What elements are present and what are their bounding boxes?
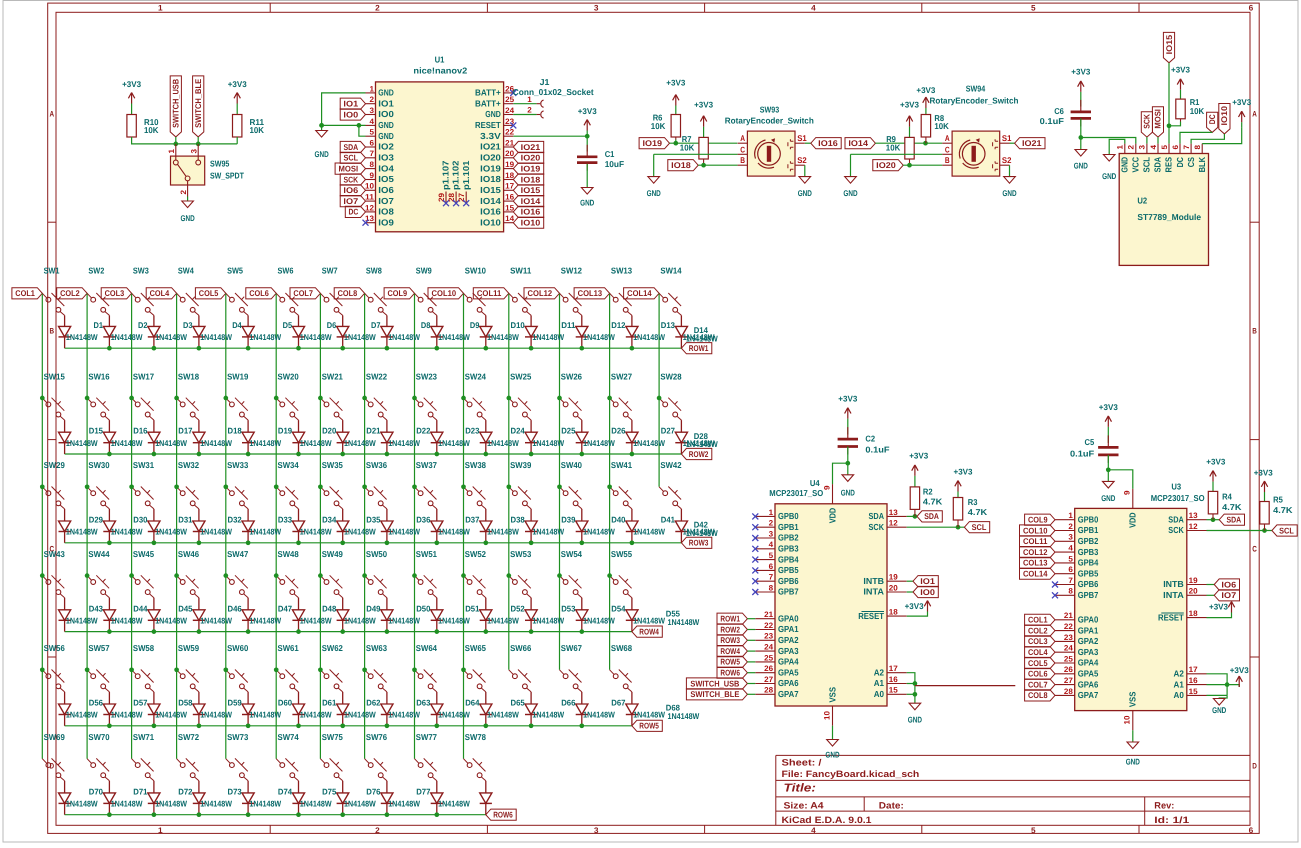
svg-text:5: 5 [1068, 554, 1073, 563]
svg-text:1N4148W: 1N4148W [532, 332, 564, 342]
diode D20 [292, 432, 304, 443]
svg-text:9: 9 [822, 485, 831, 490]
svg-text:D11: D11 [561, 320, 576, 330]
net label COL13 (U3) [1020, 557, 1056, 568]
svg-text:RESET: RESET [858, 611, 884, 621]
junction [385, 346, 390, 351]
wire COL7 vertical [319, 293, 321, 758]
U4 VDD pin 9 [832, 484, 834, 504]
ground GND (U2 pin1) [1103, 155, 1115, 162]
svg-text:28: 28 [1064, 687, 1074, 696]
diode D65 [480, 704, 492, 715]
svg-text:SW10: SW10 [465, 266, 486, 276]
svg-text:1N4148W: 1N4148W [155, 799, 187, 809]
no-connect [752, 546, 758, 552]
wire U3 SCK to SCL [1207, 530, 1272, 532]
U3 pin 2 GPB1 [1055, 530, 1075, 532]
svg-text:SW31: SW31 [133, 460, 154, 470]
svg-text:15: 15 [505, 203, 515, 212]
svg-text:+3V3: +3V3 [900, 100, 919, 110]
graphic line A1 tie to COL7 label [915, 685, 1015, 687]
svg-text:GPB7: GPB7 [1078, 590, 1099, 600]
svg-text:D50: D50 [416, 603, 431, 613]
svg-text:SW4: SW4 [178, 266, 194, 276]
diode D41 [626, 521, 638, 532]
svg-text:D10: D10 [511, 320, 526, 330]
svg-text:IO20: IO20 [876, 160, 896, 170]
svg-text:3: 3 [1068, 533, 1073, 542]
net label COL3 [101, 288, 131, 299]
junction [434, 629, 439, 634]
svg-text:GPB2: GPB2 [778, 533, 799, 543]
svg-text:D35: D35 [366, 515, 381, 525]
svg-text:10K: 10K [934, 121, 949, 131]
svg-text:15: 15 [889, 686, 899, 695]
svg-text:D36: D36 [416, 515, 431, 525]
U1 pin 23 RESET [504, 124, 514, 126]
svg-text:COL9: COL9 [388, 288, 408, 298]
svg-text:IO15: IO15 [1164, 34, 1174, 54]
diode D19 [242, 432, 254, 443]
svg-text:COL12: COL12 [528, 288, 553, 298]
capacitor C5 0.1uF [1107, 435, 1109, 447]
wire A1 to +3V3 (U3) [1227, 685, 1239, 687]
diode D33 [242, 521, 254, 532]
junction [40, 667, 45, 672]
svg-text:1N4148W: 1N4148W [249, 438, 281, 448]
diode D68 [626, 704, 638, 715]
junction [196, 142, 201, 147]
svg-text:Conn_01x02_Socket: Conn_01x02_Socket [513, 87, 594, 97]
wire COL10 vertical [463, 293, 465, 758]
junction [152, 812, 157, 817]
svg-text:D20: D20 [322, 426, 337, 436]
svg-text:D76: D76 [366, 786, 381, 796]
junction [506, 396, 511, 401]
junction [385, 452, 390, 457]
svg-text:SWITCH_USB: SWITCH_USB [690, 678, 739, 688]
wire ROW4 horizontal [65, 631, 632, 633]
junction [529, 346, 534, 351]
svg-text:R2: R2 [923, 487, 933, 497]
svg-text:INTA: INTA [863, 587, 884, 597]
net label IO18 [668, 160, 698, 171]
svg-text:VSS: VSS [827, 687, 837, 703]
svg-text:Id: 1/1: Id: 1/1 [1154, 815, 1189, 825]
junction [129, 484, 134, 489]
diode D71 [148, 793, 160, 804]
net label MOSI (U1) [335, 163, 365, 174]
svg-text:COL12: COL12 [1023, 547, 1048, 557]
diode D1 [59, 326, 71, 337]
ground GND (U3 address) [1213, 699, 1225, 706]
svg-text:GPB5: GPB5 [778, 565, 799, 575]
svg-text:D6: D6 [327, 320, 337, 330]
svg-text:23: 23 [505, 117, 515, 126]
svg-text:1N4148W: 1N4148W [438, 710, 470, 720]
svg-text:1: 1 [769, 508, 774, 517]
svg-text:IO19: IO19 [480, 163, 501, 173]
svg-text:GND: GND [580, 198, 594, 208]
junction [274, 667, 279, 672]
wire COL1 vertical [41, 293, 43, 758]
U3 pin 12 SCK [1187, 530, 1207, 532]
U4 pin 28 GPA7 [755, 693, 775, 695]
net label SWITCH_BLE [193, 76, 204, 137]
U1 pin 1 GND [366, 92, 376, 94]
U1 pin 8 IO4 [366, 168, 376, 170]
svg-text:GND: GND [378, 88, 394, 98]
diode D72 [193, 793, 205, 804]
svg-text:GPA4: GPA4 [1078, 658, 1099, 668]
svg-text:GND: GND [378, 120, 394, 130]
net label ROW3 (U4) [717, 635, 747, 646]
IC U4 MCP23017_SO body [775, 504, 887, 706]
svg-text:D51: D51 [465, 603, 480, 613]
svg-text:2: 2 [1127, 144, 1136, 149]
diode D5 [242, 326, 254, 337]
svg-text:GPB6: GPB6 [778, 576, 799, 586]
junction [461, 573, 466, 578]
svg-text:D64: D64 [465, 698, 480, 708]
svg-text:R5: R5 [1273, 495, 1283, 505]
svg-text:21: 21 [764, 610, 774, 619]
junction [701, 163, 706, 168]
svg-text:DC: DC [1207, 114, 1217, 124]
U4 pin 7 GPB6 [755, 580, 775, 582]
junction [40, 396, 45, 401]
wire COL2 vertical [86, 293, 88, 758]
diode D78 [480, 793, 492, 804]
net label IO16 [811, 138, 841, 149]
svg-text:D2: D2 [138, 320, 148, 330]
junction [107, 346, 112, 351]
svg-text:19: 19 [1189, 576, 1199, 585]
junction [1225, 682, 1230, 687]
svg-text:GPB0: GPB0 [778, 511, 799, 521]
diode D23 [431, 432, 443, 443]
diode D25 [525, 432, 537, 443]
junction [223, 396, 228, 401]
junction [845, 461, 850, 466]
diode D75 [337, 793, 349, 804]
svg-text:BATT+: BATT+ [475, 98, 501, 108]
diode D4 [193, 326, 205, 337]
svg-text:MOSI: MOSI [339, 163, 359, 173]
svg-text:SW2: SW2 [88, 266, 104, 276]
svg-text:SW30: SW30 [88, 460, 109, 470]
junction [913, 692, 918, 697]
U2 pin 7 CS [1190, 144, 1192, 154]
U3 pin 24 GPA3 [1055, 651, 1075, 653]
junction [630, 346, 635, 351]
svg-text:12: 12 [365, 203, 375, 212]
resistor R9 10K [905, 137, 914, 159]
wire ROW2 horizontal [65, 453, 682, 455]
svg-text:4: 4 [811, 4, 816, 13]
svg-text:1N4148W: 1N4148W [249, 527, 281, 537]
diode D59 [193, 704, 205, 715]
svg-text:10K: 10K [250, 125, 265, 135]
net label SWITCH_BLE (U4) [686, 689, 747, 700]
svg-text:A2: A2 [1174, 669, 1184, 679]
svg-text:6: 6 [1249, 4, 1254, 13]
svg-text:IO18: IO18 [521, 174, 541, 184]
svg-text:22: 22 [764, 621, 774, 630]
svg-text:D46: D46 [228, 603, 243, 613]
svg-text:1N4148W: 1N4148W [300, 799, 332, 809]
svg-text:1N4148W: 1N4148W [66, 332, 98, 342]
wire ROW6 horizontal [65, 814, 486, 816]
svg-text:13: 13 [889, 508, 899, 517]
svg-text:1N4148W: 1N4148W [438, 799, 470, 809]
diode D48 [292, 610, 304, 621]
svg-text:1N4148W: 1N4148W [388, 438, 420, 448]
svg-text:GND: GND [843, 188, 857, 198]
power symbol +3V3 (C2) [845, 408, 851, 419]
diode D3 [148, 326, 160, 337]
svg-text:IO3: IO3 [378, 153, 394, 163]
svg-text:+3V3: +3V3 [666, 78, 685, 88]
U4 pin 6 GPB5 [755, 569, 775, 571]
svg-text:2: 2 [179, 189, 188, 194]
net label IO15 (U1 right) [513, 185, 543, 196]
U4 pin 3 GPB2 [755, 537, 775, 539]
U4 pin 4 GPB3 [755, 548, 775, 550]
svg-text:GPA4: GPA4 [778, 657, 799, 667]
junction [340, 452, 345, 457]
wire U1 pin5 GND [359, 125, 366, 136]
U4 pin 16 A1 [887, 683, 907, 685]
no-connect [443, 200, 449, 206]
net label ROW1 [681, 343, 711, 354]
net label ROW6 (U4) [717, 667, 747, 678]
svg-text:MOSI: MOSI [1153, 109, 1163, 129]
svg-text:D29: D29 [89, 515, 104, 525]
junction [197, 346, 202, 351]
svg-text:Sheet: /: Sheet: / [782, 758, 823, 768]
svg-text:SW61: SW61 [278, 643, 299, 653]
svg-text:C1: C1 [605, 149, 615, 159]
svg-text:10: 10 [822, 710, 831, 720]
svg-text:GPB7: GPB7 [778, 587, 799, 597]
svg-text:SW20: SW20 [278, 371, 299, 381]
svg-text:D47: D47 [278, 603, 293, 613]
svg-text:RotaryEncoder_Switch: RotaryEncoder_Switch [930, 96, 1019, 106]
diode D35 [337, 521, 349, 532]
wire ROW5 horizontal [65, 725, 632, 727]
svg-text:SW5: SW5 [227, 266, 243, 276]
svg-text:COL3: COL3 [1028, 636, 1048, 646]
svg-text:GND: GND [798, 188, 812, 198]
svg-text:4.7K: 4.7K [923, 497, 943, 507]
wire U4 A2/A1/A0 tie [907, 673, 915, 704]
svg-text:GPB5: GPB5 [1078, 568, 1099, 578]
svg-text:14: 14 [505, 214, 515, 223]
junction [107, 452, 112, 457]
net label COL12 [524, 288, 560, 299]
svg-text:8: 8 [370, 160, 375, 169]
svg-text:D56: D56 [89, 698, 104, 708]
wire ROW3 horizontal [65, 542, 682, 544]
wire A0 to GND (U3) [1219, 695, 1227, 698]
svg-text:SW76: SW76 [366, 732, 387, 742]
svg-text:U3: U3 [1171, 482, 1181, 492]
svg-text:RESET: RESET [475, 120, 501, 130]
svg-text:1N4148W: 1N4148W [583, 710, 615, 720]
svg-text:SW29: SW29 [44, 460, 65, 470]
U3 pin 5 GPB4 [1055, 562, 1075, 564]
svg-text:SW94: SW94 [966, 84, 986, 94]
svg-text:0.1uF: 0.1uF [1040, 116, 1064, 126]
svg-text:+3V3: +3V3 [1071, 67, 1090, 77]
wire C5 to U3 VDD [1108, 470, 1133, 489]
junction [107, 540, 112, 545]
net label SDA (U4) [917, 511, 942, 522]
svg-text:+3V3: +3V3 [838, 394, 857, 404]
svg-text:p1.102: p1.102 [451, 160, 461, 190]
svg-text:1N4148W: 1N4148W [633, 527, 665, 537]
svg-text:3: 3 [594, 4, 599, 13]
svg-text:SW50: SW50 [366, 549, 387, 559]
power symbol +3V3 (C5) [1105, 416, 1111, 427]
junction [1106, 467, 1111, 472]
net label ROW5 [632, 720, 662, 731]
U4 pin 25 GPA4 [755, 661, 775, 663]
wire U1 pin22 3.3V to C1 [513, 135, 587, 137]
svg-text:SW28: SW28 [660, 371, 681, 381]
junction [246, 540, 251, 545]
svg-text:8: 8 [1193, 144, 1202, 149]
svg-text:KiCad E.D.A. 9.0.1: KiCad E.D.A. 9.0.1 [782, 815, 872, 825]
junction [529, 723, 534, 728]
svg-text:RotaryEncoder_Switch: RotaryEncoder_Switch [725, 116, 814, 126]
svg-text:D61: D61 [322, 698, 337, 708]
title block [776, 754, 1250, 756]
junction [385, 723, 390, 728]
diode D32 [193, 521, 205, 532]
svg-text:11: 11 [365, 193, 375, 202]
svg-text:1N4148W: 1N4148W [344, 799, 376, 809]
svg-text:1N4148W: 1N4148W [66, 710, 98, 720]
svg-text:SCK: SCK [343, 174, 358, 184]
svg-text:D3: D3 [183, 320, 193, 330]
U3 pin 26 GPA5 [1055, 673, 1075, 675]
junction [461, 667, 466, 672]
net label IO15 (U2 RES) [1163, 32, 1174, 62]
junction [483, 346, 488, 351]
svg-text:1N4148W: 1N4148W [111, 799, 143, 809]
svg-text:GPB1: GPB1 [1078, 525, 1099, 535]
svg-text:D8: D8 [421, 320, 431, 330]
U1 pin 25 BATT+ [504, 103, 514, 105]
svg-text:COL2: COL2 [1028, 625, 1048, 635]
svg-text:B: B [740, 155, 745, 165]
diode D51 [431, 610, 443, 621]
svg-text:7: 7 [769, 573, 774, 582]
svg-text:4: 4 [370, 117, 375, 126]
net label COL9 (U3) [1025, 514, 1055, 525]
svg-text:8: 8 [1068, 587, 1073, 596]
U1 pin 18 IO18 [504, 179, 514, 181]
svg-text:1N4148W: 1N4148W [111, 332, 143, 342]
junction [483, 540, 488, 545]
svg-text:SW93: SW93 [760, 105, 780, 115]
net label COL10 (U3) [1020, 525, 1056, 536]
net label COL11 (U3) [1020, 536, 1056, 547]
svg-text:D39: D39 [561, 515, 576, 525]
diode D29 [59, 521, 71, 532]
svg-text:IO1: IO1 [343, 99, 358, 109]
svg-text:SCL: SCL [972, 522, 987, 532]
wire S1 to IO21 [1010, 142, 1015, 144]
junction [107, 812, 112, 817]
svg-text:SCL: SCL [1279, 525, 1294, 535]
diode D64 [431, 704, 443, 715]
resistor R7 10K [699, 137, 708, 159]
U4 pin 23 GPA2 [755, 639, 775, 641]
svg-text:IO0: IO0 [343, 109, 358, 119]
junction [174, 396, 179, 401]
svg-text:MCP23017_SO: MCP23017_SO [769, 488, 823, 498]
net label IO16 (U1 right) [513, 206, 543, 217]
svg-text:IO6: IO6 [343, 185, 358, 195]
diode D66 [525, 704, 537, 715]
svg-text:IO7: IO7 [378, 196, 394, 206]
net label SCL (U3) [1272, 525, 1297, 536]
junction [362, 573, 367, 578]
power symbol +3V3 (R6) [673, 95, 679, 106]
net label SCL (U4) [964, 522, 989, 533]
svg-text:S1: S1 [797, 133, 807, 143]
svg-text:R3: R3 [968, 497, 978, 507]
svg-text:8: 8 [769, 583, 774, 592]
svg-text:GPB3: GPB3 [1078, 547, 1099, 557]
svg-text:ROW4: ROW4 [639, 626, 659, 636]
svg-text:IO14: IO14 [480, 196, 501, 206]
diode D39 [525, 521, 537, 532]
svg-text:3: 3 [769, 529, 774, 538]
svg-text:1N4148W: 1N4148W [487, 332, 519, 342]
power symbol +3V3 (R1) [1177, 79, 1184, 90]
svg-text:SW43: SW43 [44, 549, 65, 559]
svg-text:nice!nanov2: nice!nanov2 [413, 65, 467, 75]
svg-text:COL8: COL8 [1028, 690, 1048, 700]
svg-text:COL5: COL5 [1028, 658, 1048, 668]
junction [579, 540, 584, 545]
junction [579, 723, 584, 728]
junction [85, 484, 90, 489]
svg-text:4.7K: 4.7K [1222, 502, 1242, 512]
U1 pin 12 IO8 [366, 211, 376, 213]
junction [107, 723, 112, 728]
net label COL2 (U3) [1025, 625, 1055, 636]
U4 pin 8 GPB7 [755, 591, 775, 593]
svg-text:1N4148W: 1N4148W [668, 617, 700, 627]
svg-text:COL1: COL1 [15, 288, 35, 298]
svg-text:IO18: IO18 [671, 160, 691, 170]
U3 pin 28 GPA7 [1055, 694, 1075, 696]
capacitor C1 10uF [586, 145, 588, 157]
svg-text:1N4148W: 1N4148W [487, 615, 519, 625]
svg-text:D57: D57 [133, 698, 148, 708]
svg-text:23: 23 [764, 632, 774, 641]
power symbol +3V3 (R2) [912, 465, 918, 476]
wire S2 to GND [804, 165, 806, 176]
svg-text:GND: GND [378, 131, 394, 141]
svg-text:SW63: SW63 [366, 643, 387, 653]
svg-text:SW71: SW71 [133, 732, 154, 742]
